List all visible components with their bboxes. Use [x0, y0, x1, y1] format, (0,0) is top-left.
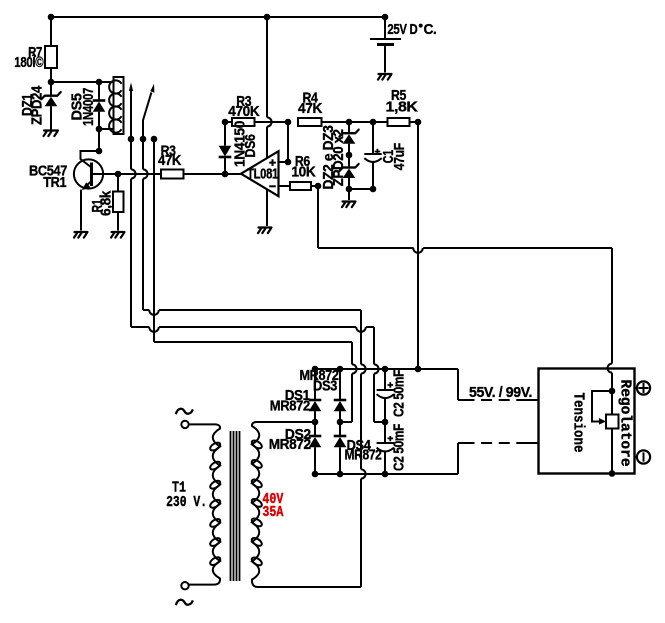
wire output positive rail	[312, 366, 458, 400]
transformer T1 primary terminal top	[176, 409, 193, 428]
diode DS4 MR872	[334, 436, 347, 474]
wire vertical 3 crossing base wire	[153, 139, 155, 342]
transformer T1 secondary winding	[250, 422, 361, 587]
transformer core	[231, 431, 240, 581]
svg-text:MR872: MR872	[269, 437, 311, 453]
op-amp U1 TL081	[241, 151, 279, 196]
ground below DZ2	[342, 202, 356, 208]
diode DS2 MR872	[309, 436, 322, 474]
svg-text:DS3: DS3	[313, 379, 337, 395]
zener DZ1 ZPD24	[41, 82, 60, 130]
wire output negative rail	[312, 443, 458, 477]
label DS4 MR872	[345, 438, 382, 463]
wire non-inverting input	[279, 119, 292, 166]
label 25V D.C.	[387, 22, 436, 38]
svg-text:MR872: MR872	[270, 399, 310, 415]
label Tensione	[570, 393, 586, 453]
label R3 470K	[228, 94, 260, 120]
ground below R1	[111, 232, 125, 238]
resistor R7	[45, 17, 57, 82]
battery 25V DC	[370, 17, 401, 73]
wire inverting input to regulator pot	[318, 186, 612, 391]
label MR872 DS3	[300, 368, 339, 395]
label DS5 1N4007	[70, 88, 98, 126]
label C1 47uF	[381, 143, 408, 170]
capacitor C2b 50mF	[377, 422, 394, 474]
wire dashed output negative	[458, 442, 539, 444]
label R7 180ohm	[14, 45, 44, 71]
label R5 1,8K	[386, 88, 419, 116]
wire output sense R5 to output rail	[417, 122, 419, 369]
wire relay arm1 to capacitor midpoint (doubler select)	[131, 327, 385, 422]
resistor R1 6.8k	[113, 174, 124, 231]
label T1 230 V.	[166, 479, 207, 511]
node A junction R7/DZ1/relay coil	[48, 79, 114, 86]
potentiometer inside regulator	[592, 388, 619, 477]
transformer T1 primary terminal bottom	[176, 582, 193, 605]
transformer T1 primary winding	[189, 424, 222, 584]
label DZ1 ZPD24	[20, 86, 46, 125]
ground below TR1 emitter	[74, 232, 88, 238]
svg-text:55V. / 99V.: 55V. / 99V.	[469, 385, 532, 401]
label C2 50mF upper	[392, 370, 408, 417]
ground below battery	[378, 74, 392, 80]
svg-text:C2 50mF: C2 50mF	[392, 424, 408, 471]
resistor R4 47K	[298, 118, 388, 126]
svg-text:47uF: 47uF	[392, 143, 408, 170]
resistor R3 47K	[161, 170, 184, 179]
wire hop vertical 2 over base wire	[143, 139, 148, 310]
svg-text:DS6: DS6	[243, 134, 259, 157]
resistor R5 1.8K	[388, 118, 422, 126]
svg-text:ZPD20 x2: ZPD20 x2	[331, 129, 347, 186]
capacitor C2a 50mF	[377, 369, 394, 425]
terminal output positive	[635, 381, 651, 394]
svg-text:180Î©: 180Î©	[14, 53, 44, 71]
diode DS1 MR872	[309, 369, 322, 436]
wire base net TR1 to op-amp	[92, 171, 242, 178]
svg-text:TL081: TL081	[247, 166, 278, 182]
label BC547 TR1	[29, 164, 67, 192]
svg-text:35A: 35A	[262, 504, 283, 521]
label C2 50mF lower	[392, 424, 408, 471]
svg-text:230 V.: 230 V.	[166, 494, 207, 511]
label R3 47K	[158, 144, 182, 169]
ground below DZ1	[44, 131, 59, 137]
wire relay arm2 to transformer bottom (AC common)	[143, 310, 366, 587]
relay contact arm 1	[128, 83, 135, 143]
svg-text:TR1: TR1	[43, 175, 66, 191]
svg-text:1N4007: 1N4007	[81, 88, 97, 126]
svg-text:C2 50mF: C2 50mF	[392, 370, 408, 417]
wire dashed output positive 55V/99V	[458, 399, 539, 401]
diode DS5 1N4007 relay flyback	[93, 79, 106, 155]
svg-text:10K: 10K	[291, 165, 316, 181]
svg-text:6,8k: 6,8k	[99, 190, 115, 216]
capacitor C1 47uF	[349, 119, 382, 193]
label DZ2 e DZ3 ZPD20 x2	[321, 125, 347, 189]
relay contact arm 2 (moving)	[140, 84, 155, 143]
svg-text:ZPD24: ZPD24	[30, 86, 46, 125]
zener DZ2 ZPD20	[339, 152, 358, 200]
label DS2 MR872	[269, 427, 311, 453]
label Regolatore	[617, 379, 633, 466]
diode DS6 1N4150	[219, 119, 232, 174]
diode DS3 MR872	[334, 369, 352, 436]
svg-text:47K: 47K	[158, 153, 182, 169]
label R4 47K	[298, 91, 323, 117]
wire top supply rail +25V	[48, 14, 389, 21]
label R6 10K	[291, 154, 316, 181]
zener DZ3 ZPD20	[339, 119, 358, 168]
terminal output negative	[635, 450, 651, 463]
relay contact 3 terminal	[151, 136, 158, 143]
relay coil K1	[99, 77, 124, 134]
svg-text:1,8K: 1,8K	[386, 100, 419, 116]
wire op-amp V- to ground	[266, 189, 268, 226]
label 40V 35A secondary rating	[262, 491, 283, 521]
svg-text:47K: 47K	[298, 101, 323, 117]
svg-text:25V D: 25V D	[387, 22, 417, 38]
label DS1 MR872	[270, 388, 310, 415]
svg-text:470K: 470K	[228, 104, 260, 120]
resistor R6 10K inverting input	[279, 182, 322, 190]
transistor TR1 BC547	[74, 151, 103, 231]
wire hop vertical 1 over base wire	[131, 139, 136, 327]
wire op-amp V+ supply from rail	[267, 17, 272, 159]
label 55V. / 99V.	[469, 385, 532, 401]
resistor R3 470K feedback	[225, 118, 288, 126]
label R1 6,8k	[90, 190, 115, 216]
regulator box Regolatore Tensione	[539, 369, 635, 474]
wire relay contact3 to bridge AC input 2	[154, 342, 357, 422]
ground below op-amp	[258, 228, 272, 234]
svg-text:C.: C.	[424, 22, 437, 38]
label 1N4150 DS6	[233, 121, 260, 167]
svg-text:Tensione: Tensione	[570, 393, 586, 453]
svg-text:MR872: MR872	[345, 448, 382, 464]
